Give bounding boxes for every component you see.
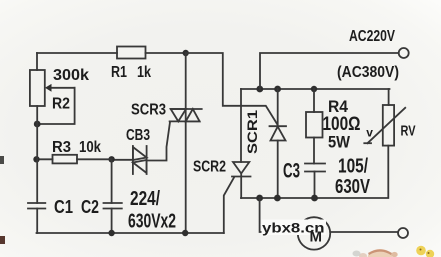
- wire left vertical (pot bottom to C1): [36, 106, 38, 203]
- watermark ybx8.cn backdrop: [262, 220, 327, 236]
- wire R1 to node A: [146, 52, 186, 54]
- wire SCR3 gate to CB3: [147, 122, 170, 161]
- svg-text:C1: C1: [54, 197, 73, 217]
- potentiometer R2 body: [30, 70, 45, 106]
- svg-text:RV: RV: [401, 124, 416, 140]
- wire SCR3 cathode down to bottom-left rail: [185, 121, 187, 233]
- capacitor C2: [104, 159, 122, 233]
- node A: [183, 50, 189, 56]
- wire top-left horizontal to R1: [37, 52, 117, 54]
- potentiometer R2 wiper arrow: [50, 87, 75, 89]
- wire node A to SCR1 gate: [186, 53, 278, 125]
- artifact left edge mark 1: [0, 156, 4, 164]
- wire R2 wiper loop: [38, 88, 75, 124]
- capacitor C3: [305, 164, 325, 199]
- diac CB3: [133, 146, 147, 174]
- svg-text:C3: C3: [283, 160, 300, 183]
- svg-text:300k: 300k: [53, 67, 89, 84]
- triac SCR3: [170, 109, 202, 121]
- svg-text:(AC380V): (AC380V): [337, 64, 399, 81]
- watermark colored smudges bottom right: [353, 246, 435, 257]
- svg-text:SCR1: SCR1: [244, 110, 260, 154]
- wire AC220V feed: [260, 53, 399, 89]
- varistor RV: [364, 89, 405, 146]
- node SCR3 bottom: [182, 230, 188, 236]
- svg-text:AC220V: AC220V: [349, 28, 395, 45]
- terminal output: [398, 228, 408, 238]
- thyristor SCR1: [270, 89, 287, 198]
- resistor R3: [53, 155, 78, 164]
- svg-text:5W: 5W: [328, 133, 351, 152]
- svg-text:M: M: [309, 229, 322, 246]
- node B (R3/C2/CB3): [108, 156, 114, 162]
- svg-text:v: v: [366, 126, 373, 140]
- motor M: [298, 217, 330, 249]
- wire C1 bottom to rail: [36, 209, 38, 234]
- node R2 wiper/bottom: [34, 121, 41, 128]
- wire mid rail y89: [241, 88, 390, 90]
- wire R3 row: [37, 158, 112, 160]
- node C (left vertical / R3 / C1): [33, 156, 39, 162]
- wire CB3 to node B: [112, 159, 133, 161]
- thyristor SCR2: [232, 89, 251, 198]
- node R4 top: [311, 86, 317, 92]
- svg-text:SCR3: SCR3: [131, 102, 166, 119]
- svg-text:630V: 630V: [335, 176, 370, 198]
- svg-text:1k: 1k: [137, 64, 151, 81]
- node AC feed: [256, 86, 263, 93]
- svg-text:R1: R1: [111, 64, 127, 81]
- svg-text:C2: C2: [81, 197, 99, 217]
- wire motor right lead: [330, 231, 398, 233]
- svg-text:10k: 10k: [79, 139, 101, 156]
- capacitor C1: [28, 203, 45, 209]
- resistor R1: [117, 47, 146, 59]
- terminal AC220V: [399, 48, 409, 58]
- wire bottom rail y198: [241, 146, 388, 198]
- artifact left edge mark 2: [0, 236, 5, 244]
- svg-text:CB3: CB3: [126, 127, 150, 144]
- wire left vertical top (to pot R2): [36, 53, 38, 70]
- wire SCR2 gate riser: [224, 178, 234, 234]
- node C3 bottom: [311, 195, 318, 202]
- svg-text:R2: R2: [52, 96, 70, 113]
- svg-text:SCR2: SCR2: [193, 159, 226, 176]
- resistor R4: [306, 89, 323, 164]
- node SCR1 top: [274, 86, 281, 93]
- svg-text:630Vx2: 630Vx2: [128, 211, 176, 233]
- node C2 bottom: [108, 230, 114, 236]
- node motor top: [256, 195, 263, 202]
- wire bottom-left rail: [37, 232, 224, 234]
- svg-text:224/: 224/: [130, 188, 160, 210]
- svg-text:105/: 105/: [338, 156, 368, 178]
- node SCR1 bottom: [274, 195, 281, 202]
- svg-text:R3: R3: [52, 139, 71, 156]
- wire SCR3 anode (node A down): [185, 53, 187, 109]
- wire motor left lead: [260, 198, 298, 232]
